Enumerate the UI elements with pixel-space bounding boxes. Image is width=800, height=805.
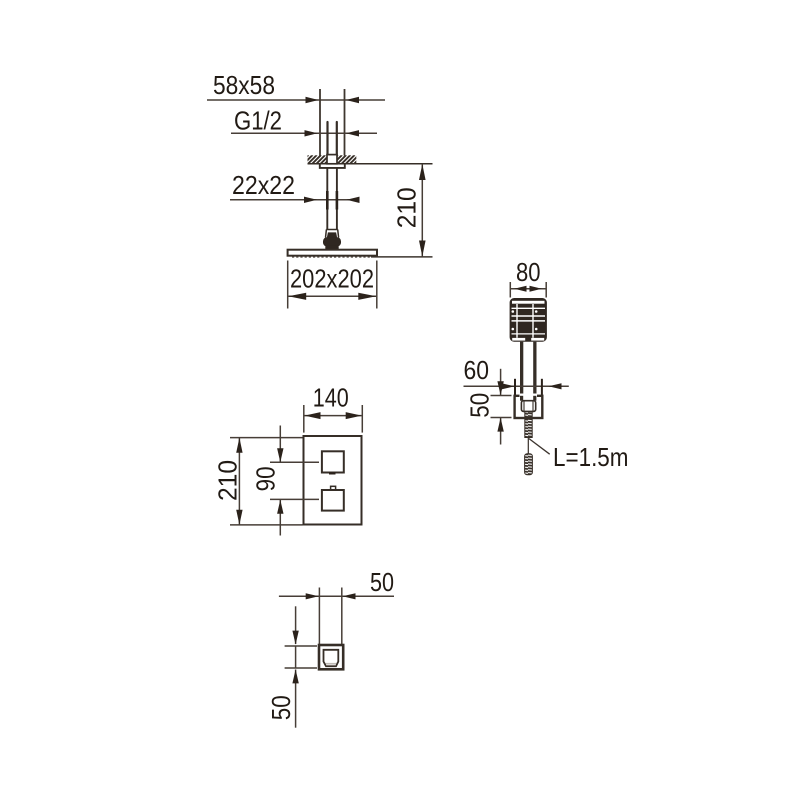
shower arm drop pipe left line bbox=[326, 168, 328, 230]
hose upper threaded segment bbox=[525, 412, 532, 438]
hand shower head body bbox=[510, 298, 547, 342]
extension line left (escutcheon 58 edge) bbox=[319, 89, 321, 156]
spray face dashed line bbox=[292, 256, 371, 258]
dim 60 bbox=[464, 385, 569, 387]
dim 202x202 bbox=[287, 261, 289, 309]
shower head plate bbox=[288, 250, 377, 256]
svg-text:G1/2: G1/2 bbox=[234, 106, 282, 136]
dim 50 horizontal bbox=[318, 588, 320, 645]
hose nut bbox=[521, 401, 535, 412]
hose thin continuation bbox=[527, 438, 529, 456]
dim 210 left bbox=[230, 437, 303, 439]
svg-text:58x58: 58x58 bbox=[213, 70, 275, 100]
svg-text:80: 80 bbox=[516, 257, 541, 287]
dim 90 inner bbox=[270, 461, 319, 463]
extension line to 210 dim bottom bbox=[371, 256, 433, 258]
svg-text:50: 50 bbox=[464, 393, 494, 418]
arm end connector bbox=[326, 229, 338, 231]
svg-text:140: 140 bbox=[313, 383, 349, 413]
svg-text:90: 90 bbox=[251, 466, 281, 491]
ball joint bbox=[323, 237, 341, 246]
leader line bbox=[529, 439, 550, 455]
hand shower handle bbox=[520, 342, 523, 398]
svg-text:50: 50 bbox=[266, 695, 296, 720]
dim 80 bbox=[509, 282, 511, 298]
supply pipe right line G1/2 bbox=[336, 122, 338, 156]
handle 2 (bottom) with notch bbox=[331, 486, 336, 490]
svg-text:202x202: 202x202 bbox=[290, 264, 374, 294]
dim 50 right hand shower bbox=[500, 369, 502, 395]
elbow inner cup bbox=[324, 650, 339, 666]
dim line G1/2 bbox=[231, 132, 377, 134]
svg-text:210: 210 bbox=[392, 187, 422, 228]
svg-text:60: 60 bbox=[464, 355, 490, 385]
tick marks 22 extent bbox=[326, 191, 329, 210]
svg-text:L=1.5m: L=1.5m bbox=[553, 442, 629, 472]
dim 210 vertical bbox=[421, 164, 423, 257]
ceiling line under hatch bbox=[308, 163, 433, 165]
ceiling flange of shower arm bbox=[320, 164, 345, 168]
wall bracket for hand shower bbox=[515, 396, 543, 418]
hose lower threaded segment bbox=[525, 454, 533, 475]
supply fitting square in ceiling bbox=[327, 155, 337, 164]
dim line 22x22 bbox=[230, 199, 353, 201]
handle 1 (top) bbox=[322, 451, 344, 472]
wall elbow outer square bbox=[319, 645, 343, 669]
mixer valve face plate bbox=[304, 436, 362, 525]
dim line 58x58 bbox=[207, 99, 385, 101]
shower arm drop pipe right line bbox=[336, 168, 338, 230]
ceiling hatch band bbox=[299, 155, 363, 164]
supply pipe left line G1/2 bbox=[326, 122, 328, 156]
dim 140 bbox=[303, 405, 305, 433]
svg-text:210: 210 bbox=[213, 460, 243, 501]
svg-text:22x22: 22x22 bbox=[232, 170, 295, 200]
handle lines over bracket bbox=[520, 396, 523, 401]
svg-text:50: 50 bbox=[370, 567, 394, 597]
extension line right (escutcheon 58 edge) bbox=[344, 89, 346, 156]
dim 50 vertical bbox=[295, 606, 297, 644]
ticks 60 extent bbox=[514, 379, 516, 395]
